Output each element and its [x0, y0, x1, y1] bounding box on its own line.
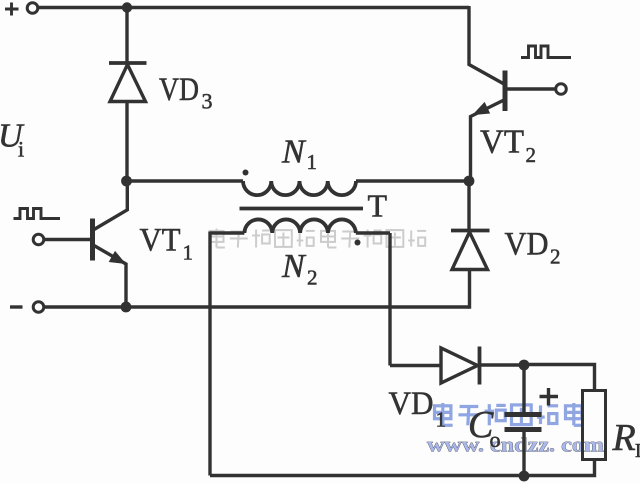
wire VT2 base — [506, 87, 555, 90]
svg-text:2: 2 — [307, 266, 318, 290]
junction top rail / VD3 — [122, 2, 132, 12]
svg-text:VT: VT — [140, 223, 181, 259]
svg-text:1: 1 — [436, 408, 447, 432]
terminal circle VT2 base — [556, 84, 567, 95]
svg-text:2: 2 — [526, 143, 537, 167]
junction N1 / VT2 emitter / VD2 — [464, 176, 475, 187]
node - input terminal (minus sign) — [10, 305, 23, 308]
terminal circle + input — [27, 3, 38, 14]
resistor RL — [583, 391, 606, 460]
svg-text:VD: VD — [505, 227, 549, 263]
junction C0 bottom / return rail — [519, 471, 530, 482]
transformer core T — [240, 207, 364, 211]
wire mid rail right (N1 to VT2 emitter) — [356, 179, 469, 182]
wire C0 top — [522, 365, 525, 413]
terminal circle - input — [33, 302, 44, 313]
svg-text:3: 3 — [202, 89, 213, 114]
transformer secondary winding N2 — [244, 219, 355, 233]
svg-text:1: 1 — [183, 241, 194, 265]
junction VT1 emitter / bottom rail — [121, 302, 132, 313]
svg-text:R: R — [612, 417, 636, 459]
svg-text:VD: VD — [159, 72, 199, 108]
wire top rail — [39, 6, 470, 9]
junction output node / C0 / RL — [519, 360, 530, 371]
svg-text:VT: VT — [480, 124, 524, 161]
capacitor C0 — [505, 412, 542, 417]
label + polarity of C0 — [540, 388, 559, 406]
svg-text:www. cndzz. com: www. cndzz. com — [427, 435, 604, 457]
svg-text:1: 1 — [307, 150, 318, 174]
wire C0 bottom — [522, 432, 525, 477]
wire VD3 cathode to top rail — [125, 8, 128, 63]
wire N2 left end down — [210, 232, 244, 476]
svg-text:2: 2 — [550, 245, 561, 269]
wire VT2 collector from top rail — [469, 6, 504, 84]
wire output node to RL top — [524, 365, 595, 391]
svg-text:N: N — [281, 248, 307, 285]
wire N2 right end — [356, 231, 390, 234]
junction VD3 / N1 / VT1 collector — [121, 176, 132, 187]
svg-text:L: L — [635, 440, 640, 462]
wire RL bottom to bottom return rail — [210, 460, 595, 476]
svg-text:i: i — [18, 137, 24, 162]
pulse waveform at VT2 base — [521, 46, 571, 58]
wire VD2 cathode up to junction — [467, 181, 470, 229]
diode VD3 — [109, 61, 147, 65]
wire VD2 anode to bottom rail — [468, 270, 470, 308]
svg-text:VD: VD — [389, 386, 434, 422]
transformer primary winding N1 — [243, 181, 356, 195]
wire VD1 cathode to output node — [480, 363, 525, 366]
wire VD1 anode from N2 — [390, 364, 440, 367]
wire VT1 base — [45, 238, 91, 241]
wire N2 right end down to VD1 — [388, 233, 391, 366]
svg-text:o: o — [490, 427, 501, 452]
transistor VT1 — [90, 219, 95, 261]
phase dot N2 — [355, 240, 361, 246]
svg-text:N: N — [281, 134, 307, 171]
diode VD1 — [441, 348, 478, 383]
wire mid rail left (junction to N1) — [127, 179, 244, 182]
transistor VT2 — [503, 71, 508, 112]
svg-text:T: T — [368, 188, 388, 224]
phase dot N1 — [243, 170, 249, 176]
wire bottom rail — [45, 305, 470, 308]
terminal circle VT1 base — [33, 234, 44, 245]
pulse waveform at VT1 base — [14, 209, 61, 219]
wire VD3 anode down — [125, 102, 128, 182]
diode VD2 — [451, 229, 490, 233]
node + input terminal (plus sign) — [5, 3, 19, 16]
